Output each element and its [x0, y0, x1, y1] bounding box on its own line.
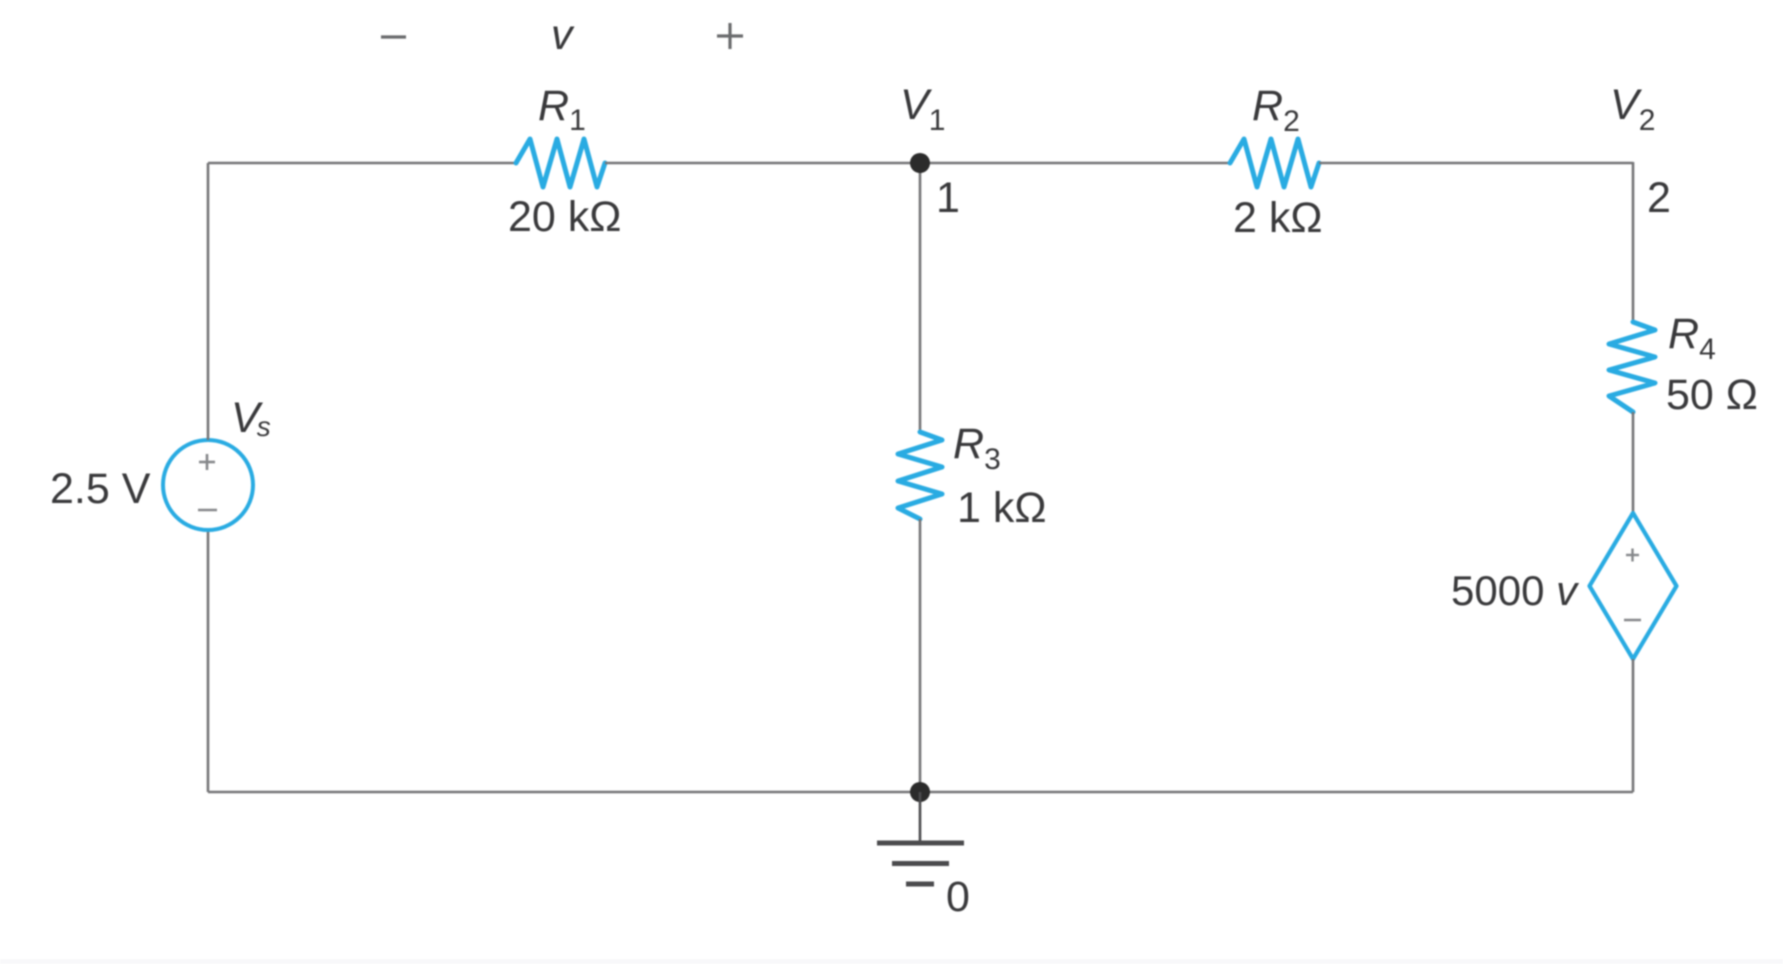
svg-text:2 kΩ: 2 kΩ — [1233, 194, 1323, 242]
wire: top, node V1 to R2 — [920, 162, 1230, 165]
resistor R4 — [1609, 322, 1655, 412]
resistor R3 — [898, 432, 942, 519]
svg-text:R4: R4 — [1668, 310, 1716, 366]
svg-text:2: 2 — [1647, 174, 1671, 222]
wire: middle, R3 down to ground node — [919, 519, 922, 792]
junction ground node dot — [910, 782, 930, 802]
svg-text:5000 v: 5000 v — [1451, 567, 1580, 614]
svg-text:V2: V2 — [1610, 81, 1655, 137]
wire: right, R4 to dependent source — [1632, 412, 1635, 513]
svg-text:R2: R2 — [1252, 82, 1300, 138]
svg-text:0: 0 — [946, 873, 970, 921]
wire: top, R2 to corner V2 — [1319, 162, 1633, 165]
dependent source plus sign — [1626, 549, 1639, 562]
svg-text:R1: R1 — [538, 82, 586, 137]
wire: left, source Vs up to top corner — [207, 163, 210, 440]
svg-text:50 Ω: 50 Ω — [1666, 371, 1758, 419]
wire: bottom, right corner to ground node — [920, 791, 1633, 794]
bottom edge strip — [0, 959, 1783, 964]
voltage source plus sign — [199, 454, 215, 470]
ground symbol — [877, 792, 964, 884]
resistor R1 — [516, 139, 605, 187]
svg-text:Vs: Vs — [231, 394, 271, 442]
wire: top, R1 to node V1 — [605, 162, 920, 165]
label: polarity minus (top of R1) — [381, 35, 406, 38]
svg-text:v: v — [551, 11, 575, 59]
svg-text:1 kΩ: 1 kΩ — [957, 484, 1047, 532]
svg-text:R3: R3 — [953, 420, 1001, 476]
svg-text:V1: V1 — [900, 81, 945, 137]
voltage source Vs circle — [163, 440, 253, 530]
dependent source 5000v (diamond) — [1590, 513, 1677, 659]
wire: top, source to R1 — [208, 162, 516, 165]
wire: right, dependent source to bottom corner — [1632, 659, 1635, 792]
svg-text:2.5 V: 2.5 V — [50, 465, 151, 513]
wire: middle, node V1 down to R3 — [919, 163, 922, 432]
junction node 1 dot — [910, 153, 930, 173]
wire: right, V2 corner down to R4 — [1632, 162, 1635, 322]
wire: left, bottom corner up to source Vs — [207, 530, 210, 792]
dependent source minus sign — [1624, 619, 1641, 621]
label: polarity plus (top of R1) — [717, 23, 743, 49]
resistor R2 — [1230, 139, 1319, 187]
wire: bottom, ground node to left corner — [208, 791, 920, 794]
svg-text:20 kΩ: 20 kΩ — [508, 193, 621, 241]
svg-text:1: 1 — [936, 174, 960, 222]
voltage source minus sign — [198, 509, 217, 512]
